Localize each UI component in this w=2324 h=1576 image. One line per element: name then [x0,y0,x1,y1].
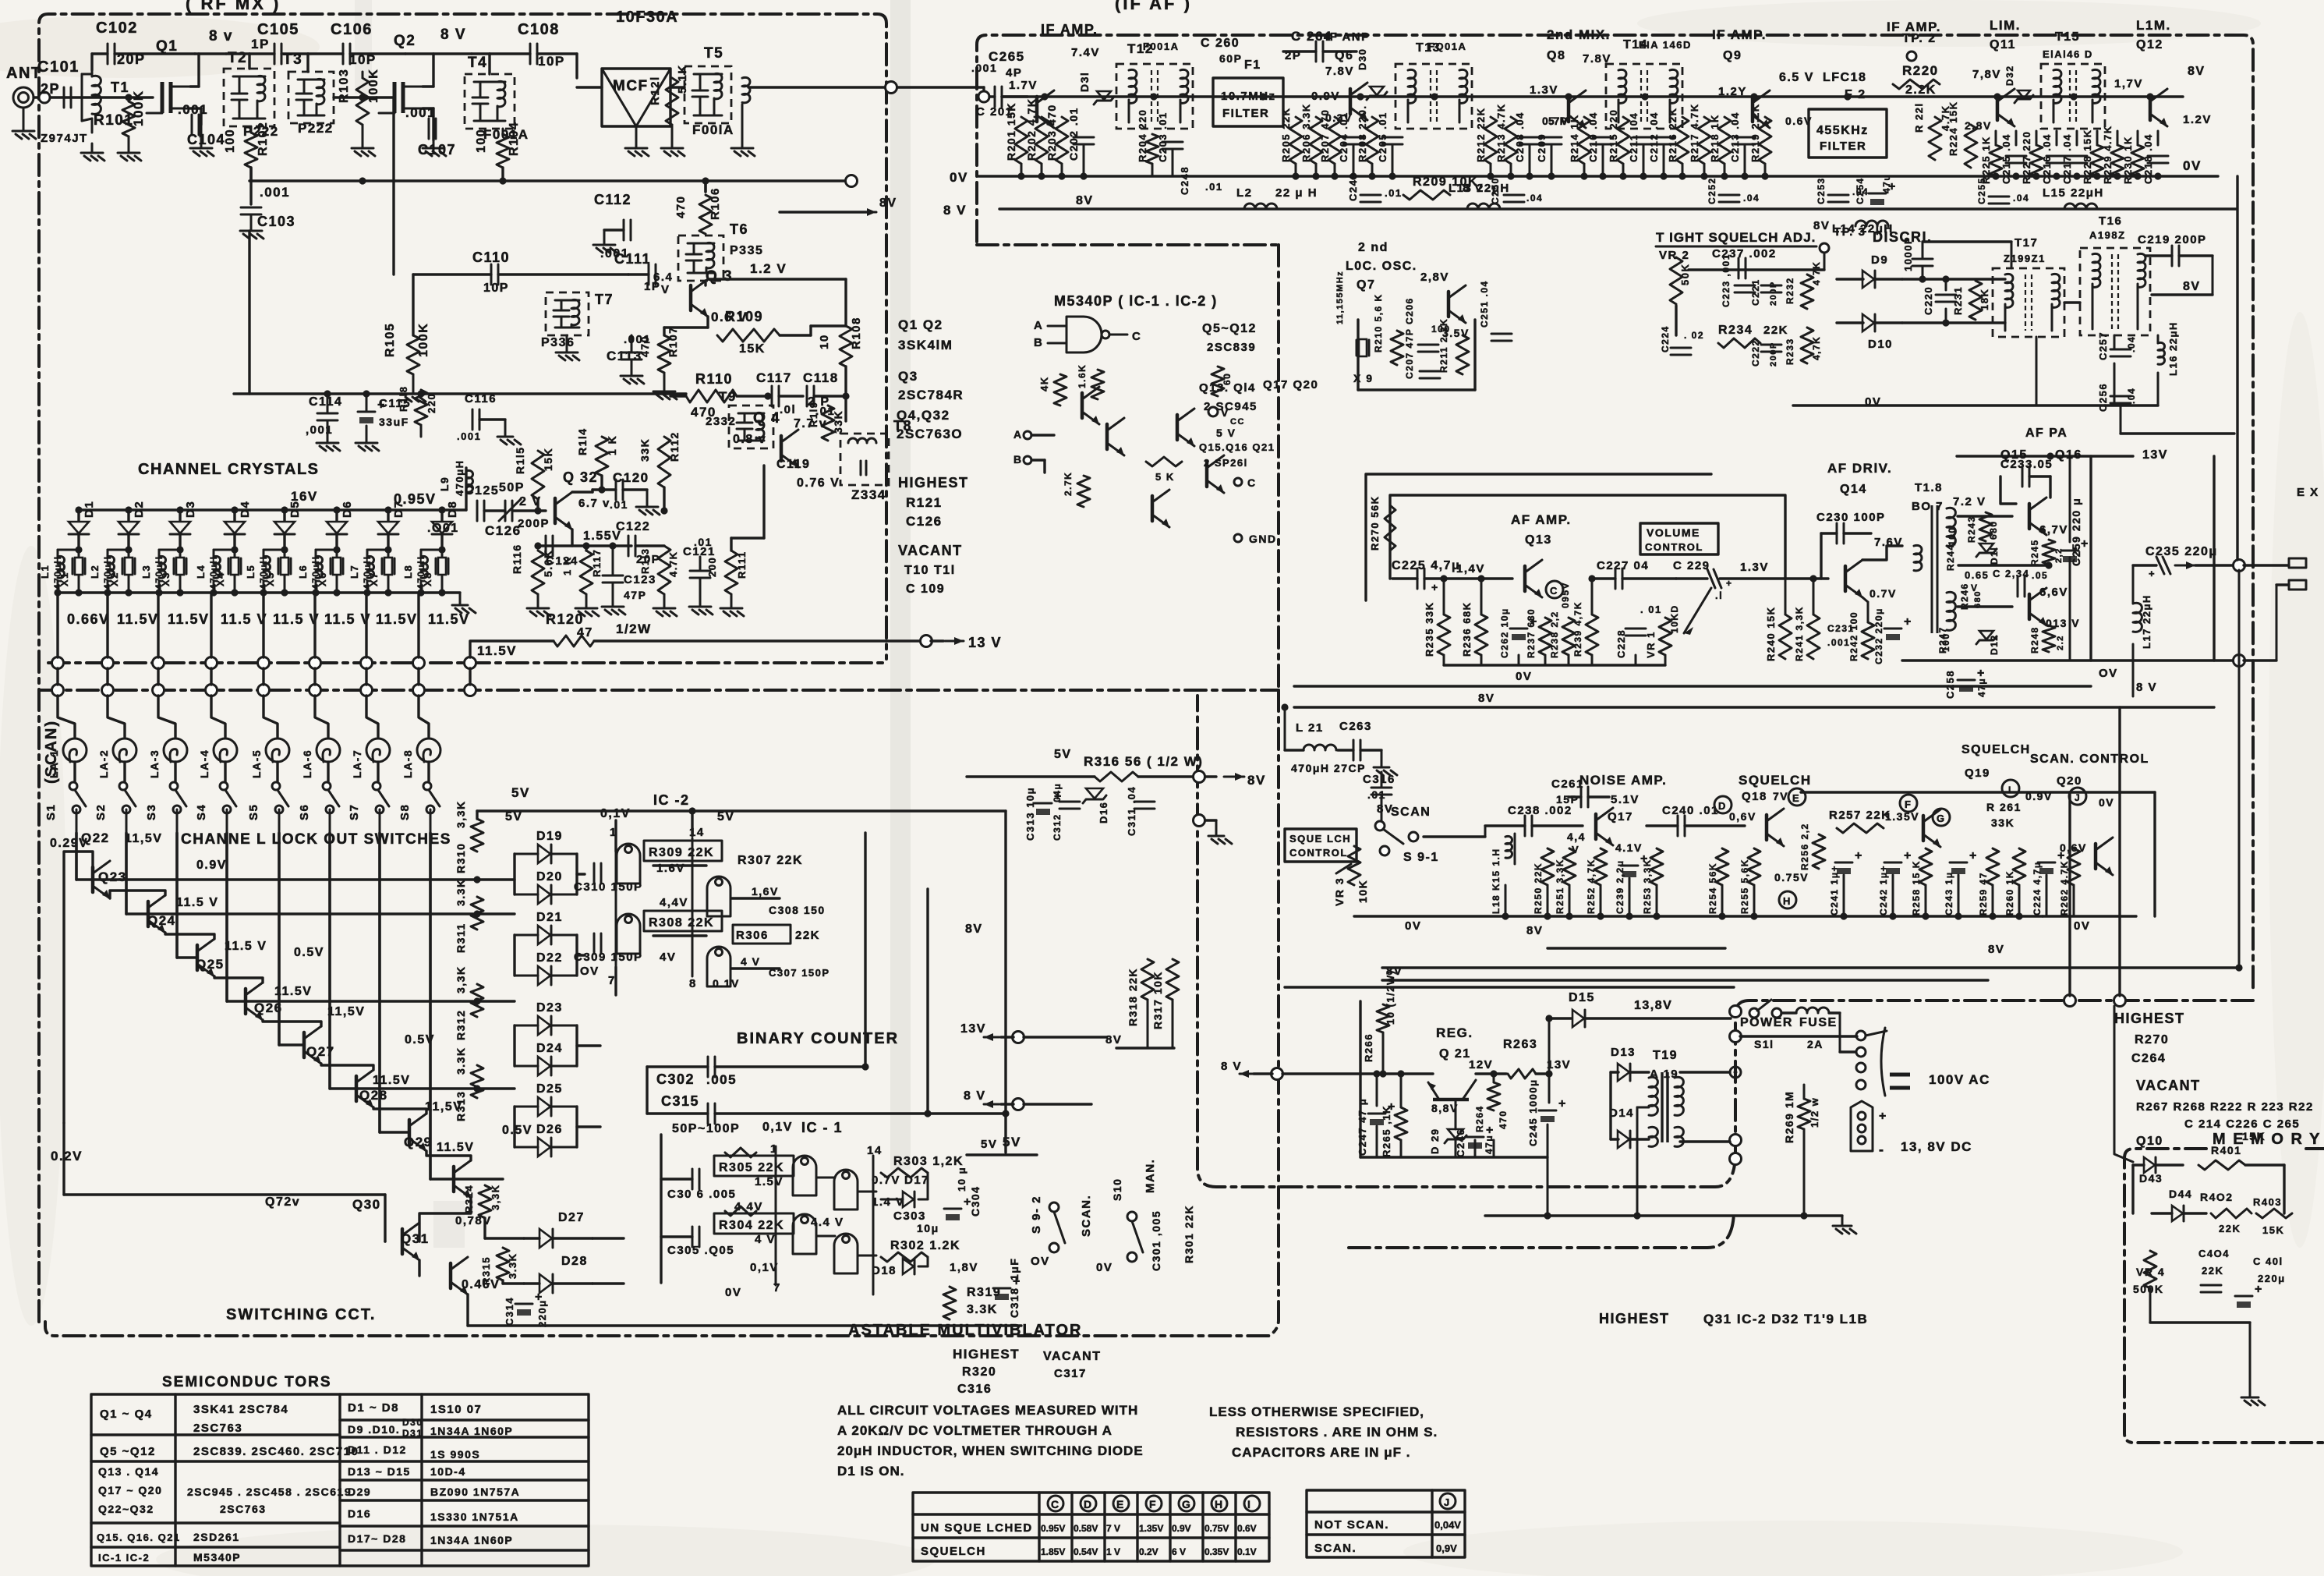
svg-text:R240 15K: R240 15K [1765,606,1777,661]
channel crystal X3 [179,550,182,557]
svg-text:0.2V: 0.2V [51,1149,83,1163]
resistor R229 [2111,145,2124,176]
wire column 5 to lamp [264,696,278,737]
NAND gate IC2-D [707,947,730,986]
capacitor C208 [1519,136,1540,139]
svg-text:100V AC: 100V AC [1929,1072,1990,1087]
capacitor C203 [1162,141,1183,143]
svg-text:C251 .04: C251 .04 [1479,280,1490,328]
svg-text:0.2V: 0.2V [1139,1546,1158,1557]
svg-text:R255 5,6K: R255 5,6K [1739,859,1750,914]
capacitor C217 [2067,155,2087,158]
wire 5V top rail ICs [477,809,1006,812]
svg-text:455KHz: 455KHz [1816,124,1869,137]
svg-text:+: + [964,1195,972,1209]
svg-text:7.4V: 7.4V [1071,46,1100,59]
svg-text:R233: R233 [1785,338,1795,365]
svg-text:0,1V: 0,1V [750,1261,779,1274]
circled D [1714,796,1732,813]
transistor Q29 [452,1167,456,1192]
wire ladder to IC2 [577,873,585,875]
svg-text:1.7V: 1.7V [1009,79,1038,92]
svg-text:R1l5: R1l5 [514,446,526,474]
svg-text:0.75V: 0.75V [1774,871,1809,884]
boxed text SQUELCH CONTROL [1285,829,1357,862]
svg-text:C311 .04: C311 .04 [1126,786,1137,836]
svg-text:C257: C257 [2097,331,2109,360]
svg-text:1S 990S: 1S 990S [430,1448,480,1461]
svg-text:L15 22μH: L15 22μH [2043,186,2104,200]
svg-text:C107: C107 [418,142,456,158]
svg-text:47P: 47P [624,589,646,601]
svg-text:470: 470 [638,335,651,357]
svg-text:5 K: 5 K [1155,471,1175,483]
svg-text:C218 .04: C218 .04 [2142,133,2154,184]
svg-text:Q6: Q6 [1335,49,1353,62]
NAND gate IC2-A [617,844,640,884]
wires reg bottoms [1376,1074,1378,1106]
svg-text:+: + [1904,615,1912,629]
connector mid [1194,815,1205,827]
svg-text:470: 470 [1498,1110,1509,1129]
wire T17 T16 link [2064,301,2080,303]
svg-text:J: J [1444,1496,1451,1508]
wire right verticals [2236,176,2238,560]
svg-text:R253 3,3K: R253 3,3K [1642,859,1653,914]
svg-text:R107: R107 [667,327,679,357]
capacitor 1000P [1912,258,1933,260]
svg-text:S6: S6 [298,804,311,820]
connector pin pair column 3 [153,657,164,669]
svg-text:D9 .D10.: D9 .D10. [348,1423,400,1436]
wire top distribution lines [1382,966,2240,969]
svg-text:C313 10μ: C313 10μ [1024,787,1036,841]
svg-text:R401: R401 [2211,1144,2241,1156]
svg-text:470: 470 [674,195,688,218]
svg-text:8 V: 8 V [1221,1060,1242,1073]
filter F1 10.7MHz [1213,78,1283,126]
svg-text:R220: R220 [1902,63,1939,78]
svg-text:0.8 v: 0.8 v [733,433,766,446]
svg-text:HIGHEST: HIGHEST [2114,1011,2185,1026]
connector 13.8V DC [1851,1101,1873,1151]
svg-text:X 9: X 9 [1353,372,1374,384]
trimmer capacitor C126 50P [504,501,507,521]
svg-text:LESS OTHERWISE SPECIFIED,: LESS OTHERWISE SPECIFIED, [1209,1404,1424,1419]
wire R302 D18 loop [927,1257,929,1266]
svg-text:0.75V: 0.75V [1204,1523,1229,1534]
wire lim comb to 0V [1995,131,1997,145]
svg-text:R213 4.7K: R213 4.7K [1495,103,1507,162]
wire 0V long AF [1294,685,2091,687]
monolithic crystal filter MCF 10F30A [602,69,670,126]
resistor R107 470 [658,335,670,373]
svg-text:8 v: 8 v [209,28,233,44]
capacitor C306 .005 [692,1169,694,1189]
svg-text:33uF: 33uF [379,416,409,428]
svg-text:BO 7: BO 7 [1912,500,1944,513]
wire noise row top rail [1424,835,1485,838]
capacitor C242 [1884,862,1901,864]
resistor R103 [356,78,369,125]
svg-text:P336: P336 [541,336,575,349]
channel diode D7 [387,510,389,521]
svg-text:B: B [1034,336,1043,349]
svg-text:C118: C118 [803,370,839,385]
wire Q23 base bus [148,912,515,915]
svg-text:2nd MIX.: 2nd MIX. [1547,27,1611,42]
svg-text:C206: C206 [1404,297,1415,324]
svg-text:1.6V: 1.6V [656,862,685,875]
svg-text:0.7V: 0.7V [1542,115,1569,127]
svg-text:R251 3,3K: R251 3,3K [1555,859,1565,914]
svg-text:+: + [2149,568,2156,579]
capacitor C110 10P [490,264,493,285]
ground power [1841,1216,1844,1221]
svg-text:C308 150: C308 150 [769,904,826,916]
svg-text:D7: D7 [392,501,405,518]
capacitor C314 220u [515,1303,532,1305]
svg-text:FILTER: FILTER [1222,107,1269,120]
svg-text:T10 T1l: T10 T1l [904,564,956,577]
capacitor C102 [90,54,93,70]
svg-text:11,5V: 11,5V [125,832,162,845]
svg-text:AF PA: AF PA [2025,427,2068,440]
svg-text:SQUELCH: SQUELCH [1961,743,2031,756]
svg-text:C314: C314 [504,1297,515,1326]
svg-text:47: 47 [577,626,593,639]
pilot lamp LA-4 [214,738,237,762]
svg-text:,001: ,001 [306,423,333,437]
svg-text:R231: R231 [1952,286,1964,315]
lockout switch S6 [323,782,331,790]
svg-text:OV: OV [2099,667,2118,680]
resistor R313 3.3K [471,1065,483,1098]
svg-text:C258: C258 [1944,670,1956,699]
svg-text:8 V: 8 V [943,203,967,218]
svg-text:11.5V: 11.5V [168,611,210,627]
svg-text:R117: R117 [591,549,603,577]
svg-text:11.5V: 11.5V [373,1074,410,1087]
svg-text:R208 220.: R208 220. [1357,105,1368,163]
svg-text:1.35V: 1.35V [1885,810,1919,823]
svg-text:T15: T15 [2055,30,2080,44]
svg-text:I: I [1247,1498,1251,1510]
svg-text:R254 56K: R254 56K [1707,862,1718,914]
svg-text:0V: 0V [2099,796,2114,809]
svg-text:D8: D8 [446,501,459,518]
svg-text:2 V: 2 V [519,495,542,508]
svg-text:R109: R109 [725,309,763,324]
resistor R115 15K [532,451,544,499]
NAND gate IC1-C [834,1170,858,1209]
ground T1 [91,143,94,153]
svg-text:Q13: Q13 [1525,533,1552,547]
svg-text:10 μ: 10 μ [956,1167,967,1192]
svg-text:D13: D13 [1611,1046,1636,1059]
svg-text:200P: 200P [518,517,550,530]
wire Q18 collector rail [1801,791,2155,793]
svg-text:Q1 Q2: Q1 Q2 [898,317,943,332]
svg-text:L2: L2 [1236,186,1253,200]
svg-text:R318 22K: R318 22K [1127,968,1139,1026]
svg-text:0,6V: 0,6V [1729,810,1756,823]
label R306 22K [733,925,791,944]
capacitor C123 47P [603,575,623,577]
svg-text:11,5V: 11,5V [327,1005,365,1018]
svg-text:8: 8 [689,977,697,990]
wire RF 8V out [780,211,867,213]
capacitor C201 [994,87,996,107]
svg-text:T IGHT SQUELCH ADJ.: T IGHT SQUELCH ADJ. [1656,230,1816,245]
NAND gate IC1-A [793,1156,816,1195]
svg-text:OV: OV [1031,1255,1050,1268]
svg-text:C249: C249 [1347,172,1359,201]
resistor R241 3.3K [1807,614,1820,659]
svg-text:Q25: Q25 [196,957,225,972]
wire AF amp top rail [1443,579,1445,614]
svg-text:D3l: D3l [1078,72,1091,92]
wire Q29 base bus [454,1178,503,1180]
svg-text:LA-5: LA-5 [250,749,263,778]
svg-text:0V: 0V [950,170,968,185]
svg-text:013 V: 013 V [2046,617,2080,629]
transformer T9 [729,406,773,448]
svg-text:R116: R116 [511,544,523,574]
svg-text:22K: 22K [1763,324,1788,337]
svg-text:R4O2: R4O2 [2200,1191,2234,1203]
wire mid 0V node [1958,564,2049,566]
svg-text:LA-2: LA-2 [97,749,110,778]
wire IC2 out vertical a [864,833,866,1067]
transistor Q14 [1844,566,1848,591]
svg-text:CHANNEL CRYSTALS: CHANNEL CRYSTALS [138,461,320,478]
svg-text:220μ: 220μ [536,1299,548,1327]
resistor R236 68K [1475,614,1487,655]
svg-text:D3: D3 [184,501,197,518]
svg-text:2SC763: 2SC763 [193,1422,242,1435]
svg-text:T6: T6 [730,221,748,237]
svg-text:+: + [1558,1097,1567,1110]
svg-text:10: 10 [818,334,831,349]
wire plug links [1740,1035,1857,1037]
svg-text:4.4 V: 4.4 V [811,1216,844,1229]
svg-text:C30 6 .005: C30 6 .005 [667,1188,736,1201]
svg-text:0.58V: 0.58V [1074,1523,1098,1534]
resistor R319 3.3K [943,1287,956,1319]
svg-text:D20: D20 [536,870,563,884]
svg-text:4P: 4P [1006,66,1022,80]
svg-text:2SC839. 2SC460. 2SC710: 2SC839. 2SC460. 2SC710 [193,1445,359,1458]
svg-text:R265 ,1K: R265 ,1K [1381,1105,1392,1157]
svg-text:C110: C110 [472,250,510,265]
wire 0V rail IF [978,175,2218,177]
svg-text:4.1V: 4.1V [1615,841,1643,854]
svg-text:C240 .01: C240 .01 [1662,804,1719,817]
svg-text:D22: D22 [536,951,563,965]
svg-text:C202 .01: C202 .01 [1067,107,1080,161]
svg-text:R313: R313 [455,1091,467,1121]
svg-text:EIA 146D: EIA 146D [1639,39,1692,51]
svg-text:R1l4: R1l4 [576,427,589,455]
svg-text:D29: D29 [348,1486,371,1498]
svg-text:POWER: POWER [1740,1016,1793,1029]
svg-text:C262 10μ: C262 10μ [1499,607,1510,658]
potentiometer VR3 10K [1348,846,1360,885]
svg-text:F1: F1 [1244,58,1261,72]
lockout switch S2 [119,782,127,790]
channel crystal X8 [441,550,444,557]
svg-text:X4: X4 [214,572,226,586]
svg-text:13V: 13V [2142,448,2168,462]
svg-text:.01: .01 [610,498,628,511]
svg-text:S 9- 2: S 9- 2 [1030,1195,1043,1234]
resistor R207 [1328,117,1341,164]
resistor R251 [1563,848,1576,885]
svg-text:Q17 Q20: Q17 Q20 [1263,378,1318,391]
inductor L16 22uH [2158,342,2165,364]
svg-text:1 K: 1 K [561,556,573,576]
svg-text:UN SQUE LCHED: UN SQUE LCHED [921,1521,1033,1535]
capacitor C125 [476,501,479,521]
svg-text:C103: C103 [257,214,295,229]
svg-text:C102: C102 [96,19,138,37]
svg-text:HIGHEST: HIGHEST [898,475,969,491]
svg-text:4 V: 4 V [741,955,761,968]
svg-text:0,9V: 0,9V [1436,1542,1457,1554]
resistor R216 [1676,117,1689,164]
svg-text:20μH INDUCTOR, WHEN SWITCH: 20μH INDUCTOR, WHEN SWITCHING DIODE [837,1443,1144,1458]
svg-text:7.7 v: 7.7 v [794,417,827,430]
svg-text:10D-4: 10D-4 [430,1465,466,1478]
svg-text:1.35V: 1.35V [1139,1523,1163,1534]
svg-text:L16 22μH: L16 22μH [2167,321,2179,376]
svg-text:R260 1K: R260 1K [2004,870,2015,915]
wire AF amp bottom rail [1444,664,1665,666]
resistor R121 5.1K [666,78,678,125]
svg-text:ANT: ANT [6,65,42,82]
svg-text:C316: C316 [957,1383,992,1396]
svg-text:X1: X1 [58,572,70,586]
svg-text:200: 200 [706,557,718,577]
svg-text:8V: 8V [1526,924,1543,937]
svg-text:R256 2,2: R256 2,2 [1799,823,1810,870]
capacitor C106 10P [342,44,345,64]
svg-text:G: G [1182,1498,1191,1510]
svg-text:T16: T16 [2099,214,2122,228]
svg-text:F: F [1905,799,1912,810]
svg-text:R224 15K: R224 15K [1947,101,1959,156]
svg-text:C252: C252 [1707,177,1717,204]
svg-text:C264: C264 [2131,1052,2166,1065]
svg-text:D25: D25 [536,1082,563,1096]
svg-text:FILTER: FILTER [1820,140,1866,153]
wire Q1 drain to 8V [190,85,199,87]
svg-text:3.3K: 3.3K [507,1253,518,1279]
svg-text:D15: D15 [1569,991,1595,1004]
resistor R243 680 [1979,512,1992,541]
svg-text:T19: T19 [1653,1049,1678,1062]
boxed label R308 22K [644,911,722,931]
svg-text:2,8V: 2,8V [1420,271,1449,284]
capacitor C259 220u [2061,550,2078,552]
svg-text:5V: 5V [1054,748,1072,761]
svg-text:5 V: 5 V [1216,427,1236,439]
channel diode D1 [77,510,80,521]
svg-text:Q19: Q19 [1965,767,1990,780]
svg-text:CC: CC [1230,417,1245,427]
wire 16V bus [77,508,466,511]
svg-text:L9: L9 [438,476,451,491]
svg-text:R306: R306 [736,929,769,942]
svg-text:C: C [1132,330,1141,343]
svg-text:R264: R264 [1474,1105,1485,1132]
svg-text:C230 100P: C230 100P [1816,511,1886,524]
svg-text:R207 470: R207 470 [1319,109,1331,162]
wire ANT to T1 [34,96,70,98]
svg-text:NOT SCAN.: NOT SCAN. [1314,1518,1389,1532]
svg-text:C310 150P: C310 150P [574,880,643,894]
svg-text:R262 4.7K: R262 4.7K [2059,860,2070,915]
svg-text:SWITCHING CCT.: SWITCHING CCT. [226,1306,376,1323]
svg-text:F: F [1149,1498,1157,1510]
channel crystal X5 [284,550,286,557]
transistor Q22 [91,867,95,892]
svg-text:R227 220: R227 220 [2021,131,2032,184]
svg-text:R230 1K: R230 1K [2122,136,2134,184]
wire Q30 emitter to Q31 [418,1260,420,1276]
svg-text:R201 15K: R201 15K [1005,102,1017,161]
svg-text:2P: 2P [41,81,60,97]
svg-text:7: 7 [773,1281,781,1294]
svg-text:C212 .04: C212 .04 [1648,112,1660,162]
transistor Q25 [244,989,248,1014]
svg-text:500K: 500K [2133,1283,2163,1295]
resistor R219 [1759,117,1771,164]
svg-text:R267 R268 R222 R 223 R22: R267 R268 R222 R 223 R22 [2136,1100,2314,1114]
transistor Q20 [2094,844,2098,869]
resistor R317 10K [1166,959,1179,1000]
svg-text:0.35V: 0.35V [1204,1546,1229,1557]
svg-text:C209: C209 [1536,133,1548,162]
svg-text:VR 3: VR 3 [1333,877,1346,906]
transformer T6 [678,236,723,281]
svg-text:Q7: Q7 [1357,278,1375,292]
svg-text:D32: D32 [2004,65,2015,86]
svg-text:C261: C261 [1551,777,1584,791]
svg-text:C247 47 μ: C247 47 μ [1357,1098,1368,1156]
IF transformer T12 [1116,64,1193,129]
svg-text:S1l: S1l [1754,1038,1774,1050]
resistor R204 [1146,134,1158,164]
NAND gate IC1-B [793,1214,816,1254]
svg-text:22K: 22K [2219,1223,2241,1234]
resistor R259 [1986,848,1999,885]
svg-text:T4: T4 [468,55,487,71]
resistor R106 470 [699,195,712,234]
SCAN board border [45,690,1279,1336]
channel diode D6 [335,510,338,521]
wire T16 bottom to C257 [2114,335,2116,349]
wire R303 D17 loop [927,1173,929,1199]
reg enclosure wires [1359,1001,1361,1157]
svg-text:22 μ H: 22 μ H [1275,186,1318,200]
IC-1 gate links [817,1177,835,1179]
svg-text:R259 47: R259 47 [1978,872,1989,915]
svg-text:1N34A 1N60P: 1N34A 1N60P [430,1425,513,1437]
wires M5340 block [1031,434,1054,436]
svg-text:SQUELCH: SQUELCH [921,1545,986,1558]
